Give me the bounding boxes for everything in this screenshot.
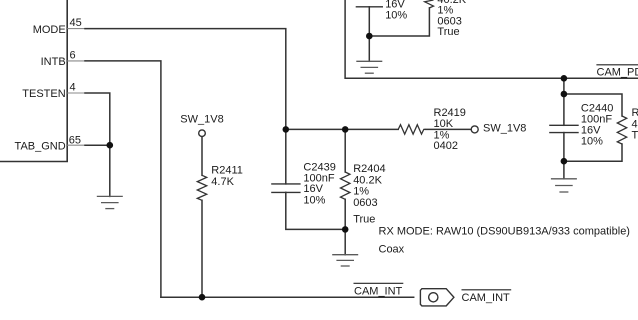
svg-text:10%: 10% <box>385 10 407 22</box>
svg-text:Coax: Coax <box>379 244 405 256</box>
svg-text:1%: 1% <box>353 186 369 198</box>
svg-text:0603: 0603 <box>353 197 377 209</box>
svg-text:10%: 10% <box>303 194 325 206</box>
svg-text:TESTEN: TESTEN <box>22 88 65 100</box>
svg-text:16V: 16V <box>303 183 323 195</box>
svg-text:65: 65 <box>69 134 81 146</box>
svg-text:TAB_GND: TAB_GND <box>15 141 66 153</box>
svg-text:45: 45 <box>70 17 82 29</box>
svg-text:True: True <box>353 214 375 226</box>
svg-text:6: 6 <box>70 49 76 61</box>
svg-text:MODE: MODE <box>33 24 66 36</box>
svg-text:SW_1V8: SW_1V8 <box>483 122 526 134</box>
svg-text:0402: 0402 <box>434 140 458 152</box>
svg-text:10%: 10% <box>581 136 603 148</box>
svg-text:4.7K: 4.7K <box>211 176 234 188</box>
svg-text:CAM_INT: CAM_INT <box>462 292 511 304</box>
svg-text:10K: 10K <box>434 118 454 130</box>
svg-text:CAM_INT: CAM_INT <box>354 285 403 297</box>
svg-text:4: 4 <box>70 81 76 93</box>
svg-text:INTB: INTB <box>41 56 66 68</box>
svg-text:40.2K: 40.2K <box>353 174 382 186</box>
svg-text:40.2K: 40.2K <box>632 118 638 130</box>
svg-text:R2411: R2411 <box>211 165 243 177</box>
svg-text:True: True <box>632 130 638 142</box>
svg-text:True: True <box>437 26 459 38</box>
svg-text:R2441: R2441 <box>632 107 638 119</box>
svg-text:C2439: C2439 <box>303 161 335 173</box>
svg-text:R2404: R2404 <box>353 163 385 175</box>
svg-text:SW_1V8: SW_1V8 <box>180 113 223 125</box>
svg-text:RX MODE: RAW10 (DS90UB913A/933: RX MODE: RAW10 (DS90UB913A/933 compatibl… <box>379 225 630 237</box>
svg-text:CAM_PDB: CAM_PDB <box>597 67 638 79</box>
